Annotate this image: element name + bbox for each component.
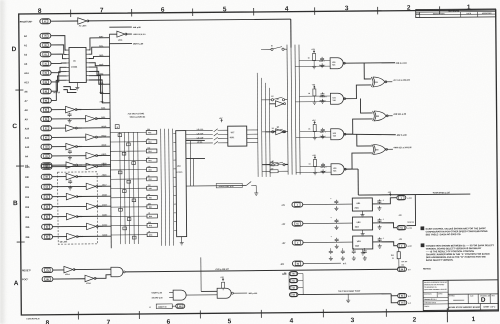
connector pin 84 A8 [41,107,52,112]
AND gate D5 [217,288,231,298]
matrix horizontal wires [110,131,146,133]
wires into D4 [169,292,173,294]
connector pin 34 A9 [41,116,52,121]
wire +8V to VR1 [303,203,353,205]
inverter U6 row 20 [86,203,96,210]
connector pin 29 A5 [41,163,52,168]
wire bundle to Q2 [266,131,276,133]
ground VR1 [361,211,363,213]
pin 53 right [398,293,407,297]
connector pin 87 A11 [41,135,52,140]
wire inverter row 20 to bus [97,205,111,207]
revision table block [416,9,496,18]
inverter U6 row 18 [86,183,96,190]
top border zone tick marks [70,10,72,17]
connector pin 31 A3 [40,61,51,66]
ground pins 50 53 70 100 [289,271,297,275]
wire inverter row 22 to bus [97,225,111,227]
wire R9 bottom to -CLR [398,259,400,269]
output cap C15 [378,237,382,241]
wire +8V to VR2 [303,222,353,224]
comparator block U16 [176,131,187,237]
connector pin 37 A10 [41,126,52,131]
label box LS240 [156,304,172,309]
NAND gate U30 [330,58,343,69]
inverter U5 row 13 [66,143,76,150]
connector pin 67 PHANTOM [40,19,51,24]
left border zone tick marks [15,89,23,91]
bus comparator U17 [228,126,247,146]
RC network row 1 [313,51,315,54]
inverter A2 LS04 XRDY [117,31,125,37]
input cap C12 [335,238,339,242]
bypass capacitors row [329,250,333,254]
inverter U6 row 16 [86,163,96,170]
connector pin 30 A4 [41,153,52,158]
wire VR1 output [372,198,396,204]
wire +MW SEL output [386,148,393,150]
buffer Q1 [275,101,283,107]
terminator resistors R5 R6 [270,163,278,166]
wire U16 out row1 [186,139,205,141]
pin 68 [176,304,185,308]
note 1 [421,227,424,230]
vertical wires right of U16 [189,141,191,186]
wire inverter row 23 to bus [77,235,111,237]
wire pin row 19 to inverter [52,196,66,198]
voltage regulator VR3 [353,236,373,249]
inverter U6 row 15 [66,162,76,169]
wire inverter row 13 to bus [76,145,110,147]
pin -CLR out [397,267,406,271]
wire inverter row 16 to bus [97,165,111,167]
NAND gate D3 [111,267,123,277]
pin 99 POC [42,277,53,282]
wire bus to U32 [360,98,372,113]
wire inverter row 12 to bus [96,136,110,138]
wires address pins to U1 inputs [51,36,67,51]
wire bus to inverter A2 [109,33,116,35]
wire U34 to U35 [357,134,372,146]
voltage regulator VR2 [352,217,372,230]
NAND gate U31 [330,93,343,104]
RC network row 3 [314,122,316,125]
pin +5V B [397,225,406,229]
right vertical bus bundle [287,45,288,175]
inverter U5 row 12 [86,134,96,141]
matrix vertical wires [119,132,122,244]
wire inverter row 14 to bus [97,154,111,156]
pin +5V C [397,243,406,247]
connector pin 82 A6 [40,89,51,94]
mid vertical bus bundle [256,73,259,177]
connector pin 94 DI1 [41,184,52,189]
wire -CLR long [125,269,397,272]
wire D2 to NAND [95,275,111,279]
wire VR3 output [373,242,398,246]
wire stub 44B [109,26,131,28]
pull-up R12 [222,278,224,281]
buffer IC U1 LS244 [69,47,86,82]
connector pin 81 A2 [40,52,51,57]
title block [423,280,498,311]
wire VR2 output [373,223,398,228]
XOR gate U32 [373,111,375,121]
switch contact S2 [246,181,251,185]
vertical address bus [109,34,111,248]
matrix right vertical wires [161,129,162,246]
wire -MR output [343,62,395,64]
wire inverter row 17 to bus [77,175,111,177]
inverter D2 LS14 [85,275,94,282]
pin +5V A [397,195,406,199]
wire U30 to U31 [364,63,371,79]
connector pin 80 A1 [40,42,51,47]
vertical wire to pull-up [406,195,415,226]
wire -ADDR DSBL [186,185,246,188]
wire MWRT bottom [172,305,175,307]
wire phantom to right bus [88,19,291,21]
XOR gate U31 [371,77,373,87]
buffer Q2 [276,129,284,135]
connector pin 91 DI4 [42,214,53,219]
ground under U1 [76,83,78,86]
wire inverter row 15 to bus [77,164,111,166]
wire pin row 22 to inverter [52,225,86,227]
wire inverter row 19 to bus [77,195,111,197]
wires under U1 [63,87,76,90]
wire stub MWRT [109,43,131,45]
connector pin 33 A12 [41,144,52,149]
ground VR3 [362,249,364,251]
wire D5 input from bus [201,290,217,292]
inverter U7 row 23 [67,233,77,240]
wire pin row 20 to inverter [52,205,86,207]
wire pin row 17 to inverter [52,176,66,178]
inverter U5 row 10 [86,115,96,122]
wire pin row 16 to inverter [52,165,86,167]
cap and ground below inverter row 9 [68,113,72,117]
wire -MW output [344,134,396,135]
ground below U16 [181,237,183,241]
wire gnd bus [298,293,391,296]
RC network row 4 [314,157,316,160]
wire WE output [233,292,247,294]
vertical wire to MWRT gate [200,257,202,291]
wire pin row 13 to inverter [52,146,66,148]
NAND gate U32 [331,129,344,140]
connector pin 92 DI5 [42,224,53,229]
note flag 3 [115,125,119,129]
connector pin 85 A13 [40,79,51,84]
inverter U5 row 9 [66,106,76,113]
wire U36 to U35 [344,153,372,169]
wire U16 out row2 [186,157,205,159]
wire pin row 10 to inverter [51,118,85,120]
net label -XRDY [126,33,132,35]
wire U36 output to ADDR MTDS [344,168,358,170]
wires U1 outputs to bus [88,38,109,50]
wire inverter row 11 to bus [76,127,110,129]
connector pin 86 A14 [40,70,51,75]
inverter U6 row 19 [66,193,76,200]
cap and ground below inverter row 13 [68,150,72,154]
pin 52 -16V [292,261,303,266]
dashed option box [58,172,98,244]
wire -16V NC [303,262,341,264]
pin 70 right [398,300,407,304]
wire RESET to inverter [53,269,64,271]
wire pin row 18 to inverter [52,185,86,187]
ground symbol at bus [347,294,349,298]
connector pin 95 DI0 [41,174,52,179]
input cap C11 [334,219,338,223]
bank select jumpers E1-E8 [271,48,273,50]
wire pin row 15 to inverter [52,164,66,166]
connector pin 83 A7 [41,98,52,103]
wire inverter row 9 to bus [76,108,110,110]
wire +MR SEL output [386,115,392,117]
inverter D1 LS14 [64,266,73,273]
wire pin row 11 to inverter [51,127,65,129]
inverter U7 row 21 [66,213,76,220]
ground VR2 [362,230,364,232]
wire R9 to pin [398,248,400,252]
RC network row 2 [313,86,315,89]
wire U34 to U32 [344,119,373,134]
inverter U6 row 17 [66,173,76,180]
AND gate D4 [173,290,186,300]
inverter U7 row 22 [87,223,97,230]
pin 75 RESET [42,268,53,273]
net label -ADDR DSBL [216,183,242,188]
wire inverter row 18 to bus [97,185,111,187]
wire D4 to D5 [186,294,217,296]
cap and ground below inverter row 17 [68,180,72,184]
wire U33 to U31 [343,85,371,99]
pull-up resistor R9 [397,252,400,259]
wire bundle to Q1 [269,103,275,105]
wire pin row 12 to inverter [51,136,85,138]
wire pin row 9 to inverter [51,109,65,111]
wire +8V to VR3 [303,241,353,243]
output cap C13 [377,199,381,203]
+5V pull-up at S1 [221,119,223,122]
ground at S2 [255,185,257,190]
connector pin 42 DI3 [41,204,52,209]
connector pin 32 A15 [41,164,52,169]
wire inverter row 21 to bus [77,215,111,217]
wire phantom pin to inverter [50,20,77,22]
NAND gate U33 [331,164,344,175]
inverter A1 LS04 [78,18,87,25]
voltage regulator VR1 [352,198,372,211]
inverter U5 row 14 [86,152,96,159]
wire D1 to NAND [74,268,111,270]
output cap C14 [377,218,381,222]
wire gnd to right pins [391,294,398,296]
wire pin row 14 to inverter [52,155,86,157]
XOR gate U35 [372,144,374,154]
input cap C10 [334,200,338,204]
connector pin 93 DI6 [42,234,53,239]
wire POC to inverter [53,278,85,280]
resistor pack RN1 elements [146,130,157,134]
bottom border zone tick marks [77,312,79,320]
connector pin 41 DI2 [41,194,52,199]
note 2 [421,244,424,247]
connector pin 79 A0 [40,33,51,38]
wire pin row 21 to inverter [52,216,66,218]
wire inverter row 10 to bus [96,117,110,119]
wire pin row 23 to inverter [52,236,66,238]
address select jumper pads [118,134,122,137]
inverter U5 row 11 [66,125,76,132]
wire +CC output [385,81,392,83]
